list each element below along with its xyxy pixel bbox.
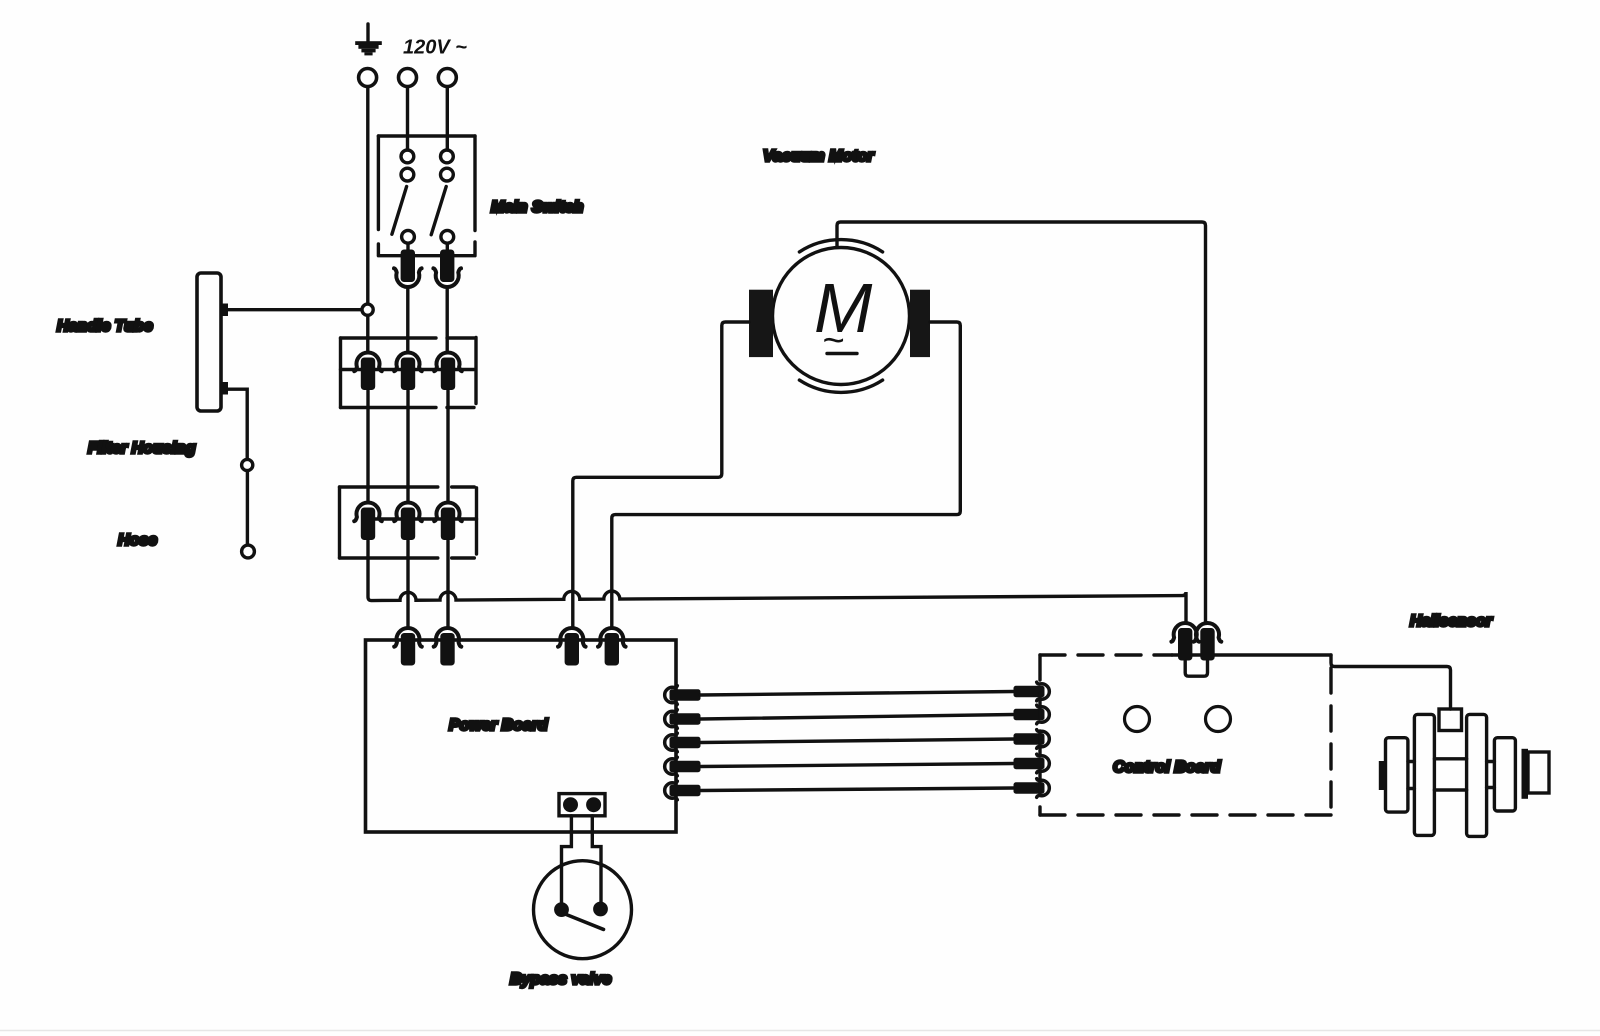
ribbon wire 1 bbox=[701, 692, 1015, 696]
connector block X2 box bbox=[340, 487, 477, 558]
wire filter housing to hose bbox=[246, 471, 249, 545]
wire L down to switch bbox=[406, 87, 409, 150]
svg-text:Handle Tube: Handle Tube bbox=[57, 318, 153, 335]
ribbon plug right 4 bbox=[1014, 754, 1050, 773]
plug power board 1 bbox=[394, 628, 422, 666]
plug X2-3 bbox=[434, 502, 462, 540]
wire bypass valve 1 bbox=[562, 816, 572, 905]
plug power board 4 bbox=[598, 628, 626, 666]
wire bypass valve 2 bbox=[592, 816, 601, 905]
svg-text:Power Board: Power Board bbox=[449, 717, 549, 734]
ribbon plug left 3 bbox=[665, 733, 701, 752]
wire motor top to control board pin 2 bbox=[837, 222, 1206, 622]
wire X1-3 to X2-3 bbox=[446, 391, 449, 502]
hallsensor end bar bbox=[1522, 749, 1529, 799]
motor AC symbol bbox=[822, 320, 857, 362]
ribbon plug right 5 bbox=[1014, 779, 1050, 798]
hallsensor shaft stub 2 bbox=[1487, 762, 1495, 788]
ribbon plug right 2 bbox=[1014, 705, 1050, 724]
ribbon wire 5 bbox=[701, 788, 1015, 791]
plug X1-2 bbox=[394, 352, 422, 390]
motor housing arc top bbox=[799, 240, 882, 252]
wire from plug 2 to block X1 bbox=[446, 289, 449, 352]
main switch box bbox=[378, 136, 475, 256]
terminal PE bbox=[359, 69, 377, 87]
plug power board 2 bbox=[434, 628, 462, 666]
plug X1-1 bbox=[354, 352, 382, 390]
node filter housing bbox=[242, 459, 253, 470]
plug connector below switch pole 2 bbox=[433, 250, 461, 288]
bypass valve connector on power board bbox=[559, 794, 605, 816]
wire handle tube to junction bbox=[228, 308, 362, 311]
svg-text:~: ~ bbox=[822, 320, 844, 362]
control board outline dashed bbox=[1040, 655, 1331, 815]
wire junction down to block X1 bbox=[366, 316, 369, 353]
ribbon plug right 1 bbox=[1014, 682, 1050, 701]
bypass valve lever bbox=[565, 914, 604, 929]
ribbon wire 2 bbox=[701, 715, 1015, 720]
plug control board 1 bbox=[1171, 623, 1199, 661]
scan artifact line bbox=[0, 1030, 1600, 1032]
plug X2-1 bbox=[354, 502, 382, 540]
switch pole 2 contact b bbox=[441, 168, 454, 181]
plug power board 3 bbox=[558, 628, 586, 666]
ribbon plug left 1 bbox=[665, 686, 701, 705]
motor right brush bbox=[910, 290, 930, 357]
wire X1-2 to X2-2 bbox=[406, 391, 409, 502]
plug control board 2 bbox=[1194, 623, 1222, 661]
wire stub pole 1 bbox=[406, 243, 409, 250]
svg-text:Main Switch: Main Switch bbox=[491, 199, 584, 216]
switch pole 2 lever bbox=[431, 187, 446, 235]
switch pole 2 contact a bbox=[441, 150, 454, 163]
bypass valve contact 1 bbox=[554, 902, 569, 917]
bypass valve connector pin 1 bbox=[563, 797, 578, 812]
ribbon wire 3 bbox=[701, 739, 1015, 743]
switch pole 1 contact b bbox=[401, 168, 414, 181]
wire motor left brush to power board bbox=[573, 322, 749, 627]
wire control board to hallsensor bbox=[1331, 655, 1451, 709]
bypass valve body bbox=[534, 861, 632, 959]
wire handle tube to filter housing bbox=[228, 389, 247, 459]
svg-text:Bypass valve: Bypass valve bbox=[510, 971, 612, 988]
svg-text:Hallsensor: Hallsensor bbox=[1410, 613, 1493, 630]
switch pole 1 contact a bbox=[401, 150, 414, 163]
bypass valve connector pin 2 bbox=[586, 797, 601, 812]
ribbon plug left 5 bbox=[665, 781, 701, 800]
hallsensor disc 4 bbox=[1494, 738, 1515, 811]
control board hole 1 bbox=[1125, 707, 1150, 732]
hallsensor left nub bbox=[1379, 761, 1386, 790]
svg-text:Hose: Hose bbox=[118, 532, 157, 549]
hallsensor shaft stub 1 bbox=[1408, 762, 1414, 789]
motor housing arc bottom bbox=[799, 380, 882, 392]
connector block X1 mid rail bbox=[341, 368, 475, 371]
hallsensor disc 1 bbox=[1386, 738, 1408, 812]
control board top edge solid segment bbox=[1172, 653, 1331, 656]
node hose end bbox=[242, 545, 255, 558]
control board hole 2 bbox=[1206, 707, 1231, 732]
svg-text:Vacuum Motor: Vacuum Motor bbox=[763, 148, 874, 165]
wire X2-1 to control board pin 1 with hops bbox=[368, 541, 1186, 622]
ground bbox=[355, 24, 382, 55]
ribbon plug left 4 bbox=[665, 757, 701, 776]
vacuum motor M1 body bbox=[773, 248, 910, 385]
ribbon plug right 3 bbox=[1014, 730, 1050, 749]
wire from plug 1 to block X1 bbox=[406, 289, 409, 352]
hallsensor disc 3 bbox=[1467, 714, 1487, 836]
switch pole 1 bottom contact bbox=[402, 230, 415, 243]
motor left brush bbox=[749, 290, 773, 357]
node junction on ground wire bbox=[362, 304, 373, 315]
wire X1-1 to X2-1 bbox=[366, 391, 369, 502]
terminal L bbox=[399, 69, 417, 87]
wire X2-2 down to power board bbox=[406, 541, 409, 628]
wire N down to switch bbox=[446, 87, 449, 150]
svg-text:Filter Housing: Filter Housing bbox=[88, 440, 196, 457]
svg-text:120V ~: 120V ~ bbox=[403, 37, 467, 59]
plug connector below switch pole 1 bbox=[394, 250, 422, 288]
hallsensor disc 2 bbox=[1414, 714, 1434, 835]
ribbon wire 4 bbox=[701, 764, 1015, 767]
switch pole 1 lever bbox=[392, 187, 407, 235]
bypass valve contact 2 bbox=[593, 902, 608, 917]
switch pole 2 bottom contact bbox=[441, 230, 454, 243]
wire X2-3 down to power board bbox=[446, 541, 449, 628]
hallsensor pickup box bbox=[1439, 709, 1462, 731]
handle tube bbox=[197, 273, 221, 411]
handle tube lower terminal nub bbox=[220, 382, 228, 395]
wire motor right brush to power board bbox=[612, 322, 961, 627]
svg-text:Control Board: Control Board bbox=[1113, 759, 1222, 776]
plug X2-2 bbox=[394, 502, 422, 540]
wire ground down to junction bbox=[366, 87, 369, 304]
hallsensor end cap bbox=[1528, 752, 1549, 793]
ribbon plug left 2 bbox=[665, 710, 701, 729]
power board outline bbox=[366, 640, 677, 832]
terminal N bbox=[438, 69, 456, 87]
connector block X2 mid rail bbox=[375, 517, 477, 520]
handle tube upper terminal nub bbox=[220, 304, 228, 317]
control board plug bracket bbox=[1185, 661, 1207, 676]
connector block X1 box bbox=[341, 337, 477, 407]
hallsensor shaft bbox=[1434, 759, 1466, 790]
plug X1-3 bbox=[434, 352, 462, 390]
wire stub pole 2 bbox=[446, 243, 449, 250]
